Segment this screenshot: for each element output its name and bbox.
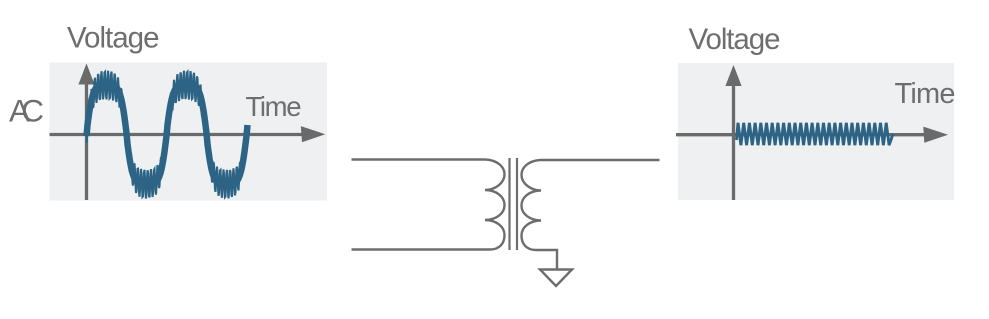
ground symbol	[540, 270, 572, 287]
svg-text:Voltage: Voltage	[689, 23, 781, 56]
left plot: noisy AC sine waveform core	[87, 84, 248, 186]
transformer T1 primary winding	[485, 160, 505, 250]
left plot: vertical voltage axis	[85, 78, 88, 200]
wire: secondary top lead	[540, 159, 660, 161]
wire: primary bottom lead	[352, 248, 491, 250]
left plot: horizontal time axis	[50, 133, 312, 136]
left plot background panel	[50, 63, 328, 201]
right plot: time axis arrowhead	[923, 127, 948, 143]
right plot: voltage axis arrowhead	[725, 65, 741, 86]
right plot background panel	[678, 63, 954, 200]
right plot: rectified high-frequency waveform	[737, 123, 894, 145]
wire: secondary bottom lead to ground	[536, 250, 557, 269]
svg-text:Time: Time	[895, 78, 956, 110]
svg-text:AC: AC	[9, 93, 44, 129]
wire: primary top lead	[352, 158, 487, 160]
svg-text:Time: Time	[246, 91, 302, 122]
right plot: horizontal time axis	[676, 133, 935, 136]
right plot: vertical voltage axis	[732, 80, 735, 200]
left plot: voltage axis arrowhead	[78, 64, 94, 85]
left plot: noisy AC sine waveform	[87, 71, 248, 199]
transformer T1 secondary winding	[522, 160, 542, 250]
left plot: time axis arrowhead	[301, 126, 326, 142]
svg-text:Voltage: Voltage	[67, 22, 160, 55]
transformer T1 core (two vertical lines)	[508, 158, 510, 250]
